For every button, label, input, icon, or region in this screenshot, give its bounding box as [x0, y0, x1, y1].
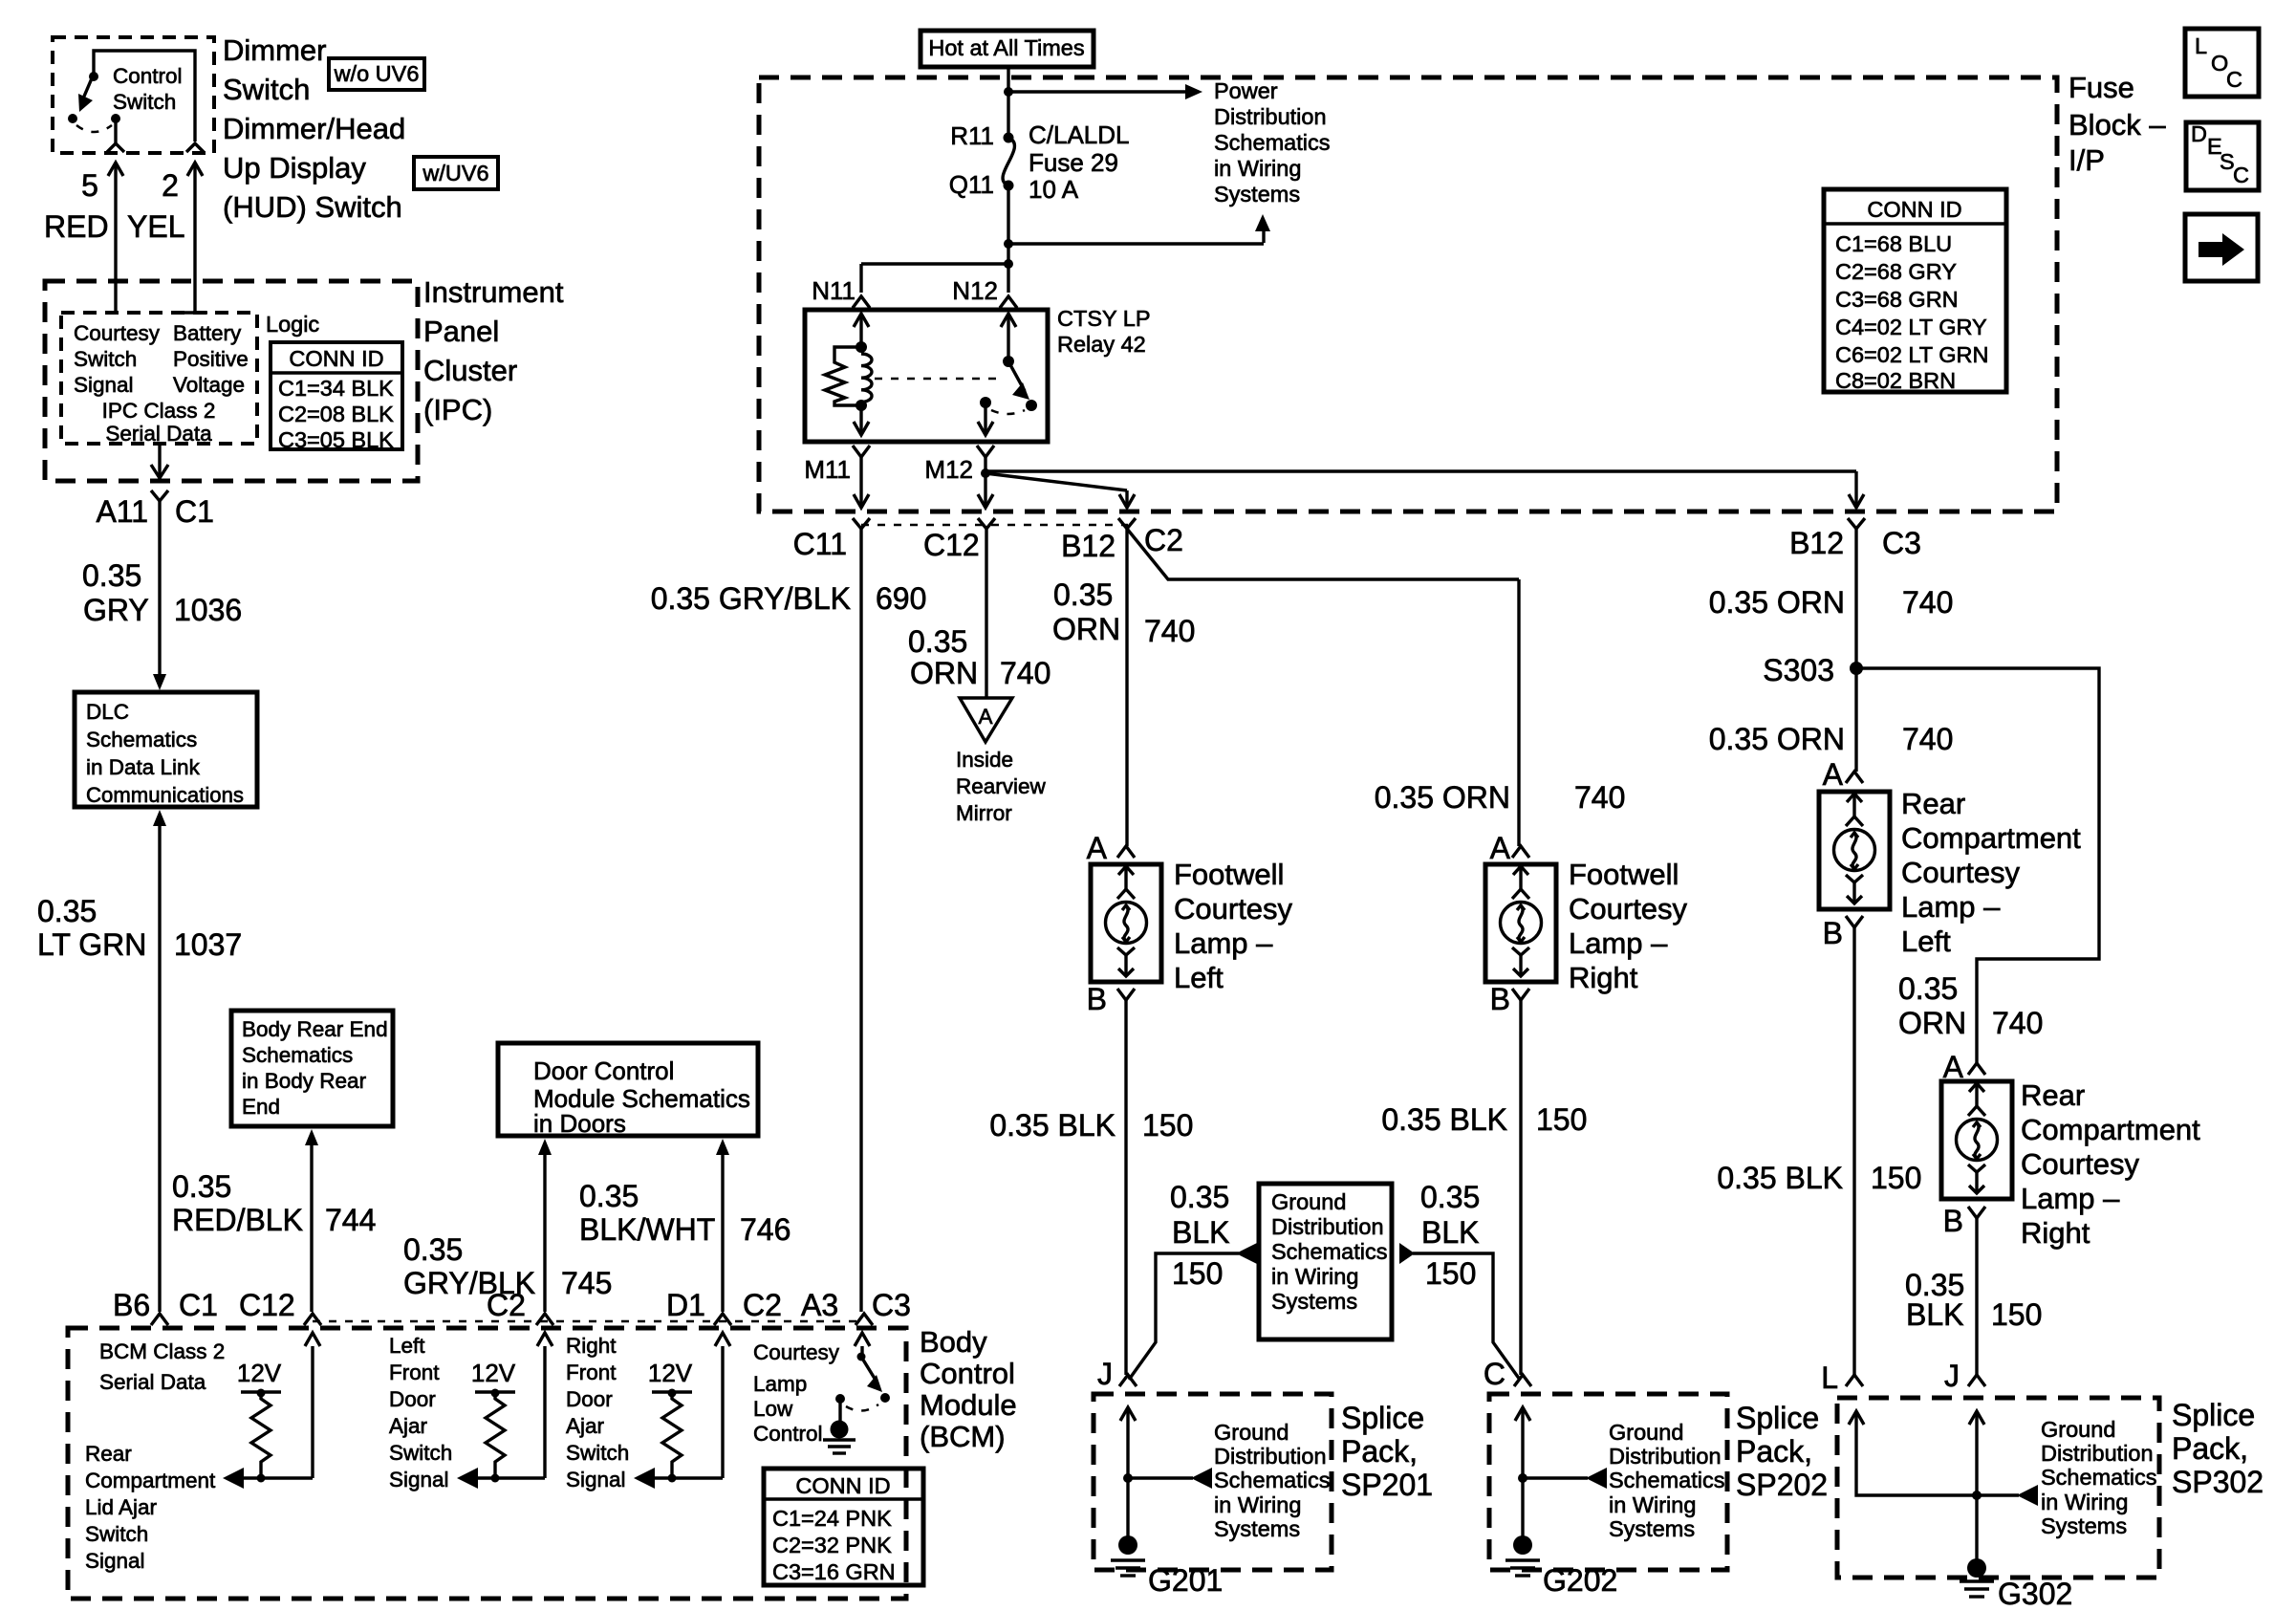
- svg-text:Rear: Rear: [1901, 787, 1965, 820]
- svg-text:Schematics: Schematics: [1214, 1468, 1330, 1492]
- svg-text:C2=32 PNK: C2=32 PNK: [772, 1533, 892, 1557]
- svg-text:SP202: SP202: [1736, 1468, 1828, 1502]
- svg-text:YEL: YEL: [127, 209, 184, 244]
- svg-text:Lamp –: Lamp –: [1901, 890, 2001, 924]
- svg-text:A: A: [1490, 831, 1511, 865]
- svg-text:740: 740: [1144, 614, 1195, 648]
- svg-text:ORN: ORN: [910, 656, 978, 690]
- svg-text:Switch: Switch: [74, 347, 137, 371]
- svg-text:150: 150: [1871, 1161, 1921, 1195]
- svg-text:Front: Front: [389, 1361, 440, 1384]
- svg-text:0.35: 0.35: [908, 624, 967, 659]
- svg-text:Schematics: Schematics: [1609, 1468, 1724, 1492]
- svg-text:Relay 42: Relay 42: [1057, 332, 1146, 357]
- svg-text:Positive: Positive: [173, 347, 249, 371]
- svg-text:0.35 GRY/BLK: 0.35 GRY/BLK: [651, 581, 851, 616]
- svg-text:SP302: SP302: [2172, 1465, 2264, 1499]
- svg-text:Serial Data: Serial Data: [105, 422, 212, 446]
- svg-text:Voltage: Voltage: [173, 373, 245, 397]
- svg-text:Courtesy: Courtesy: [1901, 856, 2021, 889]
- svg-text:Cluster: Cluster: [423, 354, 517, 387]
- svg-text:12V: 12V: [237, 1359, 282, 1387]
- svg-text:Logic: Logic: [266, 312, 319, 337]
- svg-text:0.35: 0.35: [1170, 1180, 1229, 1214]
- svg-text:C8=02 BRN: C8=02 BRN: [1835, 368, 1956, 393]
- svg-text:Footwell: Footwell: [1174, 858, 1284, 891]
- svg-text:SP201: SP201: [1341, 1468, 1433, 1502]
- svg-text:0.35 ORN: 0.35 ORN: [1709, 585, 1845, 620]
- svg-text:in Wiring: in Wiring: [1609, 1492, 1696, 1517]
- svg-text:C3=16 GRN: C3=16 GRN: [772, 1559, 896, 1584]
- svg-text:Low: Low: [753, 1397, 793, 1421]
- svg-text:746: 746: [740, 1212, 791, 1247]
- svg-text:C1: C1: [179, 1288, 218, 1322]
- svg-text:Instrument: Instrument: [423, 275, 564, 309]
- svg-text:A: A: [1087, 831, 1108, 865]
- svg-text:Distribution: Distribution: [2041, 1441, 2154, 1466]
- svg-text:LT GRN: LT GRN: [37, 927, 146, 962]
- svg-text:B: B: [1490, 982, 1510, 1016]
- svg-text:Switch: Switch: [566, 1441, 629, 1465]
- svg-text:Q11: Q11: [949, 170, 994, 199]
- svg-text:B: B: [1943, 1204, 1963, 1238]
- svg-text:in Doors: in Doors: [533, 1109, 626, 1138]
- svg-text:M11: M11: [804, 455, 851, 484]
- svg-text:Footwell: Footwell: [1569, 858, 1679, 891]
- svg-text:Lamp –: Lamp –: [1569, 926, 1668, 960]
- svg-text:End: End: [242, 1095, 280, 1119]
- svg-text:C12: C12: [239, 1288, 295, 1322]
- svg-text:C2: C2: [487, 1288, 526, 1322]
- svg-text:Right: Right: [2021, 1216, 2090, 1250]
- svg-text:Rearview: Rearview: [956, 774, 1047, 798]
- svg-text:Schematics: Schematics: [86, 728, 197, 751]
- svg-text:1037: 1037: [174, 927, 242, 962]
- svg-text:GRY: GRY: [83, 593, 149, 627]
- svg-text:IPC Class 2: IPC Class 2: [102, 399, 216, 423]
- svg-text:Compartment: Compartment: [85, 1469, 216, 1492]
- svg-text:Signal: Signal: [74, 373, 134, 397]
- svg-text:RED: RED: [44, 209, 109, 244]
- svg-text:J: J: [1944, 1359, 1960, 1393]
- svg-text:740: 740: [1902, 722, 1953, 756]
- svg-text:N12: N12: [952, 276, 998, 305]
- svg-text:Schematics: Schematics: [1271, 1239, 1387, 1264]
- svg-text:(BCM): (BCM): [920, 1420, 1006, 1453]
- svg-text:BLK: BLK: [1906, 1297, 1963, 1332]
- svg-text:J: J: [1097, 1357, 1113, 1391]
- svg-text:C1=68 BLU: C1=68 BLU: [1835, 231, 1952, 256]
- svg-text:Courtesy: Courtesy: [74, 321, 161, 345]
- svg-text:C12: C12: [923, 528, 980, 562]
- svg-text:L: L: [1821, 1361, 1838, 1395]
- svg-text:Lamp –: Lamp –: [2021, 1182, 2120, 1215]
- svg-text:G201: G201: [1148, 1563, 1223, 1598]
- svg-text:C/LALDL: C/LALDL: [1029, 120, 1130, 149]
- svg-text:Lamp: Lamp: [753, 1372, 807, 1396]
- svg-text:Control: Control: [113, 64, 183, 88]
- svg-text:BLK: BLK: [1421, 1215, 1479, 1250]
- svg-text:A: A: [1823, 757, 1844, 792]
- svg-text:Lid Ajar: Lid Ajar: [85, 1495, 158, 1519]
- svg-text:0.35: 0.35: [1053, 577, 1113, 612]
- svg-text:C11: C11: [793, 527, 847, 561]
- svg-text:150: 150: [1172, 1256, 1223, 1291]
- svg-text:Distribution: Distribution: [1214, 1444, 1327, 1469]
- svg-text:Courtesy: Courtesy: [2021, 1147, 2140, 1181]
- svg-text:740: 740: [1992, 1006, 2043, 1040]
- svg-text:Rear: Rear: [85, 1442, 132, 1466]
- svg-text:C6=02 LT GRN: C6=02 LT GRN: [1835, 342, 1988, 367]
- svg-text:Schematics: Schematics: [1214, 130, 1330, 155]
- svg-text:Signal: Signal: [389, 1468, 449, 1491]
- svg-text:Ground: Ground: [2041, 1417, 2115, 1442]
- svg-text:Up Display: Up Display: [223, 151, 366, 185]
- svg-text:Schematics: Schematics: [2041, 1465, 2156, 1490]
- svg-text:A: A: [978, 705, 992, 729]
- svg-text:C1=34 BLK: C1=34 BLK: [278, 376, 394, 401]
- svg-text:Systems: Systems: [1214, 182, 1300, 207]
- svg-text:Door: Door: [566, 1387, 613, 1411]
- svg-text:Splice: Splice: [1341, 1401, 1424, 1435]
- svg-text:Distribution: Distribution: [1609, 1444, 1722, 1469]
- svg-text:Front: Front: [566, 1361, 617, 1384]
- svg-text:CONN ID: CONN ID: [289, 346, 383, 371]
- svg-text:Left: Left: [1174, 961, 1224, 994]
- svg-text:ORN: ORN: [1898, 1006, 1966, 1040]
- svg-text:2: 2: [162, 168, 179, 203]
- svg-text:D: D: [2191, 121, 2207, 146]
- svg-text:Compartment: Compartment: [1901, 821, 2081, 855]
- svg-text:M12: M12: [924, 455, 973, 484]
- svg-text:N11: N11: [812, 276, 856, 305]
- svg-text:R11: R11: [950, 121, 994, 150]
- svg-text:Courtesy: Courtesy: [1569, 892, 1688, 925]
- svg-text:0.35: 0.35: [403, 1232, 463, 1267]
- svg-text:Ground: Ground: [1609, 1420, 1683, 1445]
- svg-text:G302: G302: [1998, 1577, 2072, 1611]
- svg-text:C: C: [1484, 1357, 1505, 1391]
- svg-text:Fuse: Fuse: [2069, 71, 2134, 104]
- svg-text:690: 690: [876, 581, 926, 616]
- svg-text:Rear: Rear: [2021, 1078, 2085, 1112]
- svg-text:Door: Door: [389, 1387, 436, 1411]
- svg-text:C3: C3: [1882, 526, 1921, 560]
- svg-text:ORN: ORN: [1052, 612, 1120, 646]
- svg-text:0.35 BLK: 0.35 BLK: [1381, 1102, 1507, 1137]
- svg-text:Splice: Splice: [1736, 1401, 1819, 1435]
- svg-text:A11: A11: [96, 494, 148, 529]
- svg-text:w/UV6: w/UV6: [422, 161, 488, 185]
- svg-text:I/P: I/P: [2069, 143, 2105, 177]
- svg-text:Systems: Systems: [2041, 1513, 2127, 1538]
- svg-text:(IPC): (IPC): [423, 393, 492, 426]
- svg-text:in Wiring: in Wiring: [1214, 156, 1301, 181]
- svg-text:C1: C1: [175, 494, 214, 529]
- svg-text:1036: 1036: [174, 593, 242, 627]
- svg-text:in Wiring: in Wiring: [1214, 1492, 1301, 1517]
- svg-text:C2=08 BLK: C2=08 BLK: [278, 402, 394, 426]
- svg-text:744: 744: [325, 1203, 376, 1237]
- svg-text:Systems: Systems: [1214, 1516, 1300, 1541]
- svg-text:12V: 12V: [648, 1359, 693, 1387]
- svg-text:B: B: [1823, 916, 1843, 950]
- svg-text:Left: Left: [1901, 925, 1951, 958]
- svg-text:Ajar: Ajar: [389, 1414, 428, 1438]
- svg-text:Switch: Switch: [85, 1522, 148, 1546]
- svg-text:D1: D1: [666, 1288, 705, 1322]
- svg-text:RED/BLK: RED/BLK: [172, 1203, 303, 1237]
- svg-text:Serial Data: Serial Data: [99, 1370, 206, 1394]
- svg-text:Signal: Signal: [85, 1549, 145, 1573]
- svg-text:Mirror: Mirror: [956, 801, 1012, 825]
- svg-text:B: B: [1087, 982, 1107, 1016]
- svg-text:0.35 BLK: 0.35 BLK: [989, 1108, 1116, 1143]
- svg-text:Battery: Battery: [173, 321, 242, 345]
- svg-text:Switch: Switch: [389, 1441, 452, 1465]
- svg-text:Systems: Systems: [1271, 1289, 1357, 1314]
- svg-text:C3=05 BLK: C3=05 BLK: [278, 427, 394, 452]
- svg-text:0.35: 0.35: [579, 1179, 639, 1213]
- svg-text:A3: A3: [801, 1288, 838, 1322]
- svg-text:Ajar: Ajar: [566, 1414, 605, 1438]
- svg-text:Switch: Switch: [113, 90, 176, 114]
- svg-text:Distribution: Distribution: [1214, 104, 1327, 129]
- svg-text:in Wiring: in Wiring: [2041, 1490, 2128, 1514]
- svg-text:L: L: [2195, 33, 2207, 58]
- svg-text:Ground: Ground: [1214, 1420, 1289, 1445]
- svg-text:0.35: 0.35: [1898, 971, 1958, 1006]
- svg-text:0.35: 0.35: [37, 894, 97, 928]
- svg-text:10 A: 10 A: [1029, 175, 1079, 204]
- svg-text:in Wiring: in Wiring: [1271, 1264, 1358, 1289]
- svg-text:Left: Left: [389, 1334, 425, 1358]
- svg-text:Distribution: Distribution: [1271, 1214, 1384, 1239]
- svg-text:745: 745: [561, 1266, 612, 1300]
- svg-text:150: 150: [1991, 1297, 2042, 1332]
- svg-text:Block –: Block –: [2069, 108, 2166, 142]
- svg-text:B6: B6: [113, 1288, 150, 1322]
- svg-text:G202: G202: [1543, 1563, 1617, 1598]
- svg-text:C3: C3: [872, 1288, 911, 1322]
- svg-text:Switch: Switch: [223, 73, 310, 106]
- svg-text:12V: 12V: [471, 1359, 516, 1387]
- svg-text:0.35 BLK: 0.35 BLK: [1717, 1161, 1843, 1195]
- svg-text:740: 740: [1574, 780, 1625, 815]
- svg-text:C3=68 GRN: C3=68 GRN: [1835, 287, 1959, 312]
- svg-text:740: 740: [1000, 656, 1051, 690]
- svg-text:Courtesy: Courtesy: [753, 1340, 840, 1364]
- svg-text:Systems: Systems: [1609, 1516, 1695, 1541]
- svg-text:Dimmer/Head: Dimmer/Head: [223, 112, 405, 145]
- svg-text:740: 740: [1902, 585, 1953, 620]
- svg-text:CONN ID: CONN ID: [1867, 197, 1961, 222]
- svg-text:Courtesy: Courtesy: [1174, 892, 1293, 925]
- svg-text:Dimmer: Dimmer: [223, 33, 327, 67]
- svg-text:C: C: [2233, 163, 2249, 187]
- svg-text:Control: Control: [920, 1357, 1015, 1390]
- svg-text:Door Control: Door Control: [533, 1056, 674, 1085]
- svg-text:Pack,: Pack,: [1736, 1434, 1812, 1469]
- svg-text:5: 5: [81, 168, 98, 203]
- svg-text:C4=02 LT GRY: C4=02 LT GRY: [1835, 315, 1987, 339]
- svg-text:BCM Class 2: BCM Class 2: [99, 1339, 225, 1363]
- svg-text:in Body Rear: in Body Rear: [242, 1069, 367, 1093]
- svg-text:Module: Module: [920, 1388, 1017, 1422]
- svg-text:Control: Control: [753, 1422, 823, 1446]
- svg-text:Power: Power: [1214, 78, 1278, 103]
- svg-text:Signal: Signal: [566, 1468, 626, 1491]
- svg-text:0.35 ORN: 0.35 ORN: [1375, 780, 1510, 815]
- svg-text:150: 150: [1425, 1256, 1476, 1291]
- svg-text:Body: Body: [920, 1325, 987, 1359]
- svg-text:Inside: Inside: [956, 748, 1013, 772]
- svg-text:C2=68 GRY: C2=68 GRY: [1835, 259, 1957, 284]
- svg-text:Compartment: Compartment: [2021, 1113, 2200, 1146]
- svg-text:A: A: [1943, 1050, 1964, 1084]
- svg-text:(HUD) Switch: (HUD) Switch: [223, 190, 402, 224]
- svg-text:CONN ID: CONN ID: [795, 1473, 890, 1498]
- svg-text:Right: Right: [1569, 961, 1638, 994]
- svg-text:Panel: Panel: [423, 315, 499, 348]
- svg-text:w/o UV6: w/o UV6: [334, 61, 420, 86]
- svg-text:CTSY LP: CTSY LP: [1057, 306, 1151, 331]
- svg-text:Body Rear End: Body Rear End: [242, 1017, 388, 1041]
- svg-text:in Data Link: in Data Link: [86, 755, 201, 779]
- svg-text:Pack,: Pack,: [2172, 1431, 2248, 1466]
- svg-text:Lamp –: Lamp –: [1174, 926, 1273, 960]
- svg-text:B12: B12: [1061, 529, 1116, 563]
- svg-text:Communications: Communications: [86, 783, 244, 807]
- svg-text:BLK/WHT: BLK/WHT: [579, 1212, 715, 1247]
- svg-text:Schematics: Schematics: [242, 1043, 353, 1067]
- svg-text:C: C: [2226, 67, 2242, 92]
- svg-text:150: 150: [1142, 1108, 1193, 1143]
- svg-text:S303: S303: [1763, 653, 1834, 687]
- svg-text:Splice: Splice: [2172, 1398, 2255, 1432]
- svg-text:B12: B12: [1789, 526, 1844, 560]
- svg-text:Hot at All Times: Hot at All Times: [928, 35, 1084, 60]
- svg-text:0.35: 0.35: [82, 558, 141, 593]
- svg-text:150: 150: [1536, 1102, 1587, 1137]
- svg-text:C2: C2: [743, 1288, 782, 1322]
- svg-text:DLC: DLC: [86, 700, 129, 724]
- svg-text:Pack,: Pack,: [1341, 1434, 1418, 1469]
- svg-text:C1=24 PNK: C1=24 PNK: [772, 1506, 892, 1531]
- svg-text:0.35: 0.35: [172, 1169, 231, 1204]
- svg-text:0.35: 0.35: [1420, 1180, 1480, 1214]
- svg-text:0.35 ORN: 0.35 ORN: [1709, 722, 1845, 756]
- svg-text:Right: Right: [566, 1334, 617, 1358]
- svg-text:C2: C2: [1144, 523, 1183, 557]
- svg-text:Ground: Ground: [1271, 1189, 1346, 1214]
- svg-text:BLK: BLK: [1172, 1215, 1229, 1250]
- svg-text:Fuse 29: Fuse 29: [1029, 148, 1118, 177]
